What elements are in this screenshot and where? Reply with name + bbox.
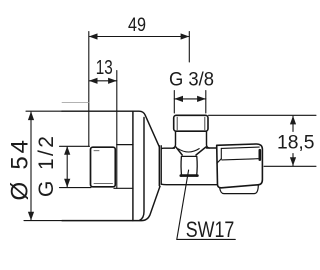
- body hex top edge: [117, 144, 133, 146]
- extension line 18,5 top (from fitting top edge): [209, 114, 317, 116]
- spindle flats SW17 outline: [181, 156, 197, 176]
- svg-text:49: 49: [128, 15, 146, 36]
- valve body bottom edge: [62, 186, 160, 220]
- dimension 13 left arrowhead: [89, 78, 98, 84]
- nut flats boundary line: [222, 159, 258, 160]
- nut corner highlight bar: [258, 150, 261, 159]
- dimension 18,5 vertical line upper segment: [292, 116, 294, 132]
- svg-text:SW17: SW17: [186, 217, 235, 242]
- extension line Ø54 top joins body top edge: [26, 110, 62, 112]
- dimension 18,5 vertical line lower segment: [292, 154, 294, 166]
- extension line Ø54 bottom joins body bottom edge: [24, 220, 62, 222]
- valve centre block top edge left: [161, 147, 174, 149]
- rosette right face: [132, 111, 134, 220]
- G1/2 thread hole inner line: [94, 182, 113, 184]
- extension line left of 49/13 down to hole: [88, 32, 90, 147]
- dimension G3/8 left arrowhead: [174, 96, 183, 102]
- dimension 49 line: [89, 36, 189, 38]
- valve body (rosette barrel) top edge: [62, 111, 159, 147]
- flare left diagonal to spindle: [176, 147, 182, 155]
- neck right line: [160, 146, 162, 184]
- thread relief thin line: [62, 102, 89, 104]
- svg-text:18,5: 18,5: [277, 132, 315, 154]
- valve centre block top edge right: [207, 147, 217, 149]
- svg-text:G 1/2: G 1/2: [35, 134, 58, 197]
- svg-text:13: 13: [96, 56, 113, 79]
- dimension 13 line: [89, 80, 117, 82]
- flare right diagonal to spindle: [196, 147, 206, 155]
- extension line G3/8 right: [205, 91, 207, 114]
- fitting collar right side: [207, 131, 210, 148]
- extension line G1/2 bottom: [60, 187, 92, 189]
- body hex bottom edge: [114, 187, 133, 189]
- dimension 18,5 up arrowhead: [290, 116, 296, 125]
- G3/8 thread core left: [176, 117, 178, 130]
- nut left chamfer diagonal: [217, 159, 221, 163]
- compression nut outer: [217, 144, 263, 188]
- svg-text:Ø 54: Ø 54: [7, 137, 34, 200]
- nut left chamfer vertical: [220, 148, 222, 158]
- thread hole inner tick top: [94, 150, 99, 152]
- extension line 18,5 bottom (outlet axis): [264, 165, 316, 167]
- dimension 13 right arrowhead: [108, 78, 117, 84]
- dimension Ø54 vertical line: [30, 112, 32, 220]
- dimension 49 left arrowhead: [89, 33, 98, 39]
- leader line SW17 to spindle flats: [177, 170, 189, 239]
- nut bottom band: [220, 185, 259, 193]
- valve centre block bottom edge: [161, 183, 217, 186]
- G1/2 female thread hole outer: [91, 147, 116, 187]
- dimension Ø54 bottom arrowhead: [28, 212, 34, 221]
- extension line right of 49: [188, 32, 190, 63]
- svg-text:G 3/8: G 3/8: [169, 69, 214, 90]
- G3/8 male thread fitting outer: [174, 115, 208, 131]
- spindle flats bottom thick edge: [181, 174, 198, 177]
- dimension 49 right arrowhead: [181, 33, 190, 39]
- fitting collar left side: [173, 131, 176, 148]
- nut top band line: [221, 147, 259, 148]
- dimension G1/2 top arrowhead: [64, 146, 70, 155]
- extension line G3/8 left: [173, 91, 175, 114]
- dimension G3/8 line: [174, 98, 206, 100]
- dimension G3/8 right arrowhead: [197, 96, 206, 102]
- flare arc under collar: [178, 149, 199, 152]
- dimension Ø54 top arrowhead: [28, 111, 34, 120]
- cone base inner edge: [140, 118, 144, 221]
- dimension G1/2 vertical line: [66, 147, 68, 188]
- extension line G1/2 top: [60, 145, 90, 147]
- G3/8 thread core right: [204, 117, 206, 130]
- neck left line: [158, 146, 160, 186]
- dimension 18,5 down arrowhead: [290, 157, 296, 166]
- dimension G1/2 bottom arrowhead: [64, 179, 70, 188]
- extension line right of 13: [116, 71, 118, 189]
